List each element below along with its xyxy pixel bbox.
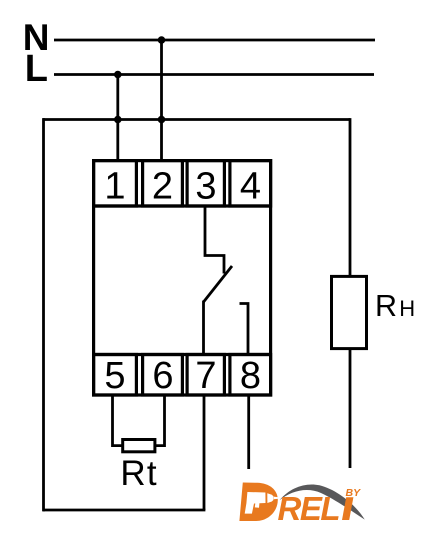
logo letter I [342, 497, 353, 520]
wire terminal1 vertical [116, 75, 119, 162]
svg-text:6: 6 [152, 355, 173, 397]
svg-text:L: L [25, 48, 48, 90]
wire Rh bottom vertical [349, 349, 352, 468]
svg-text:REL: REL [278, 490, 340, 527]
switch contact: hook to terminal 8 [240, 304, 249, 355]
svg-text:1: 1 [104, 166, 125, 208]
wire left vertical [42, 118, 45, 511]
switch contact: wire to terminal 7 [202, 301, 205, 355]
logo letter D with drill [239, 483, 278, 522]
wire Rh top vertical [349, 118, 352, 276]
svg-text:8: 8 [240, 355, 261, 397]
wire terminal 8 down [247, 395, 250, 469]
terminal box 6 [143, 355, 183, 396]
terminal box 1 [94, 161, 137, 206]
terminal box 5 [94, 355, 137, 396]
wire bottom horizontal [43, 509, 205, 512]
junction dot on N line [158, 36, 166, 44]
junction dot bus right [158, 116, 166, 124]
svg-text:2: 2 [152, 166, 173, 208]
svg-text:3: 3 [195, 166, 216, 208]
terminal box 7 [187, 355, 224, 396]
terminal box 2 [143, 161, 183, 206]
device outline [94, 161, 271, 395]
wire terminal 5 down [113, 395, 122, 446]
switch contact: wire from terminal 3 [205, 206, 224, 274]
svg-text:4: 4 [240, 166, 261, 208]
wire L line [54, 73, 374, 76]
terminal box 3 [187, 161, 224, 206]
wire horizontal bus [43, 118, 350, 121]
svg-text:Rt: Rt [120, 454, 157, 493]
wire terminal 6 down [156, 395, 165, 446]
wire N line [54, 39, 375, 42]
svg-text:BY: BY [346, 487, 362, 499]
wire terminal2 vertical [160, 40, 163, 161]
device bottom row separator line [92, 353, 272, 356]
terminal box 4 [230, 161, 271, 206]
junction dot on L line [114, 71, 122, 79]
wire terminal 7 down [203, 395, 206, 510]
resistor Rh [332, 276, 367, 348]
svg-text:7: 7 [195, 355, 216, 397]
svg-text:5: 5 [104, 355, 125, 397]
junction dot bus left [114, 116, 122, 124]
logo swoosh [280, 484, 365, 519]
device top row separator line [92, 204, 272, 207]
terminal box 8 [230, 355, 271, 396]
resistor Rt [123, 440, 155, 452]
switch contact: moving arm [204, 266, 233, 302]
